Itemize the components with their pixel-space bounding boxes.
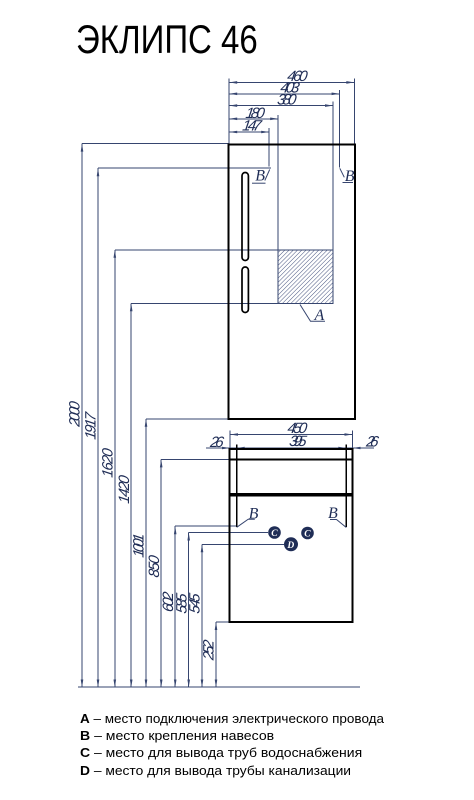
svg-text:1620: 1620	[100, 447, 117, 479]
svg-text:C: C	[304, 530, 311, 540]
svg-text:A: A	[314, 307, 325, 324]
svg-text:B: B	[345, 168, 355, 185]
svg-text:C: C	[271, 529, 278, 539]
svg-text:1420: 1420	[116, 474, 133, 505]
svg-text:2000: 2000	[67, 400, 84, 429]
svg-text:380: 380	[276, 91, 298, 108]
svg-text:252: 252	[201, 638, 218, 662]
svg-text:B: B	[249, 505, 259, 522]
svg-text:26: 26	[364, 433, 380, 450]
svg-text:147: 147	[241, 118, 263, 135]
svg-text:D: D	[286, 541, 294, 551]
svg-text:850: 850	[146, 554, 163, 579]
svg-text:395: 395	[288, 433, 308, 450]
svg-text:1917: 1917	[83, 411, 100, 441]
svg-text:B: B	[328, 505, 338, 522]
svg-text:B: B	[255, 168, 265, 185]
svg-text:545: 545	[187, 592, 204, 615]
